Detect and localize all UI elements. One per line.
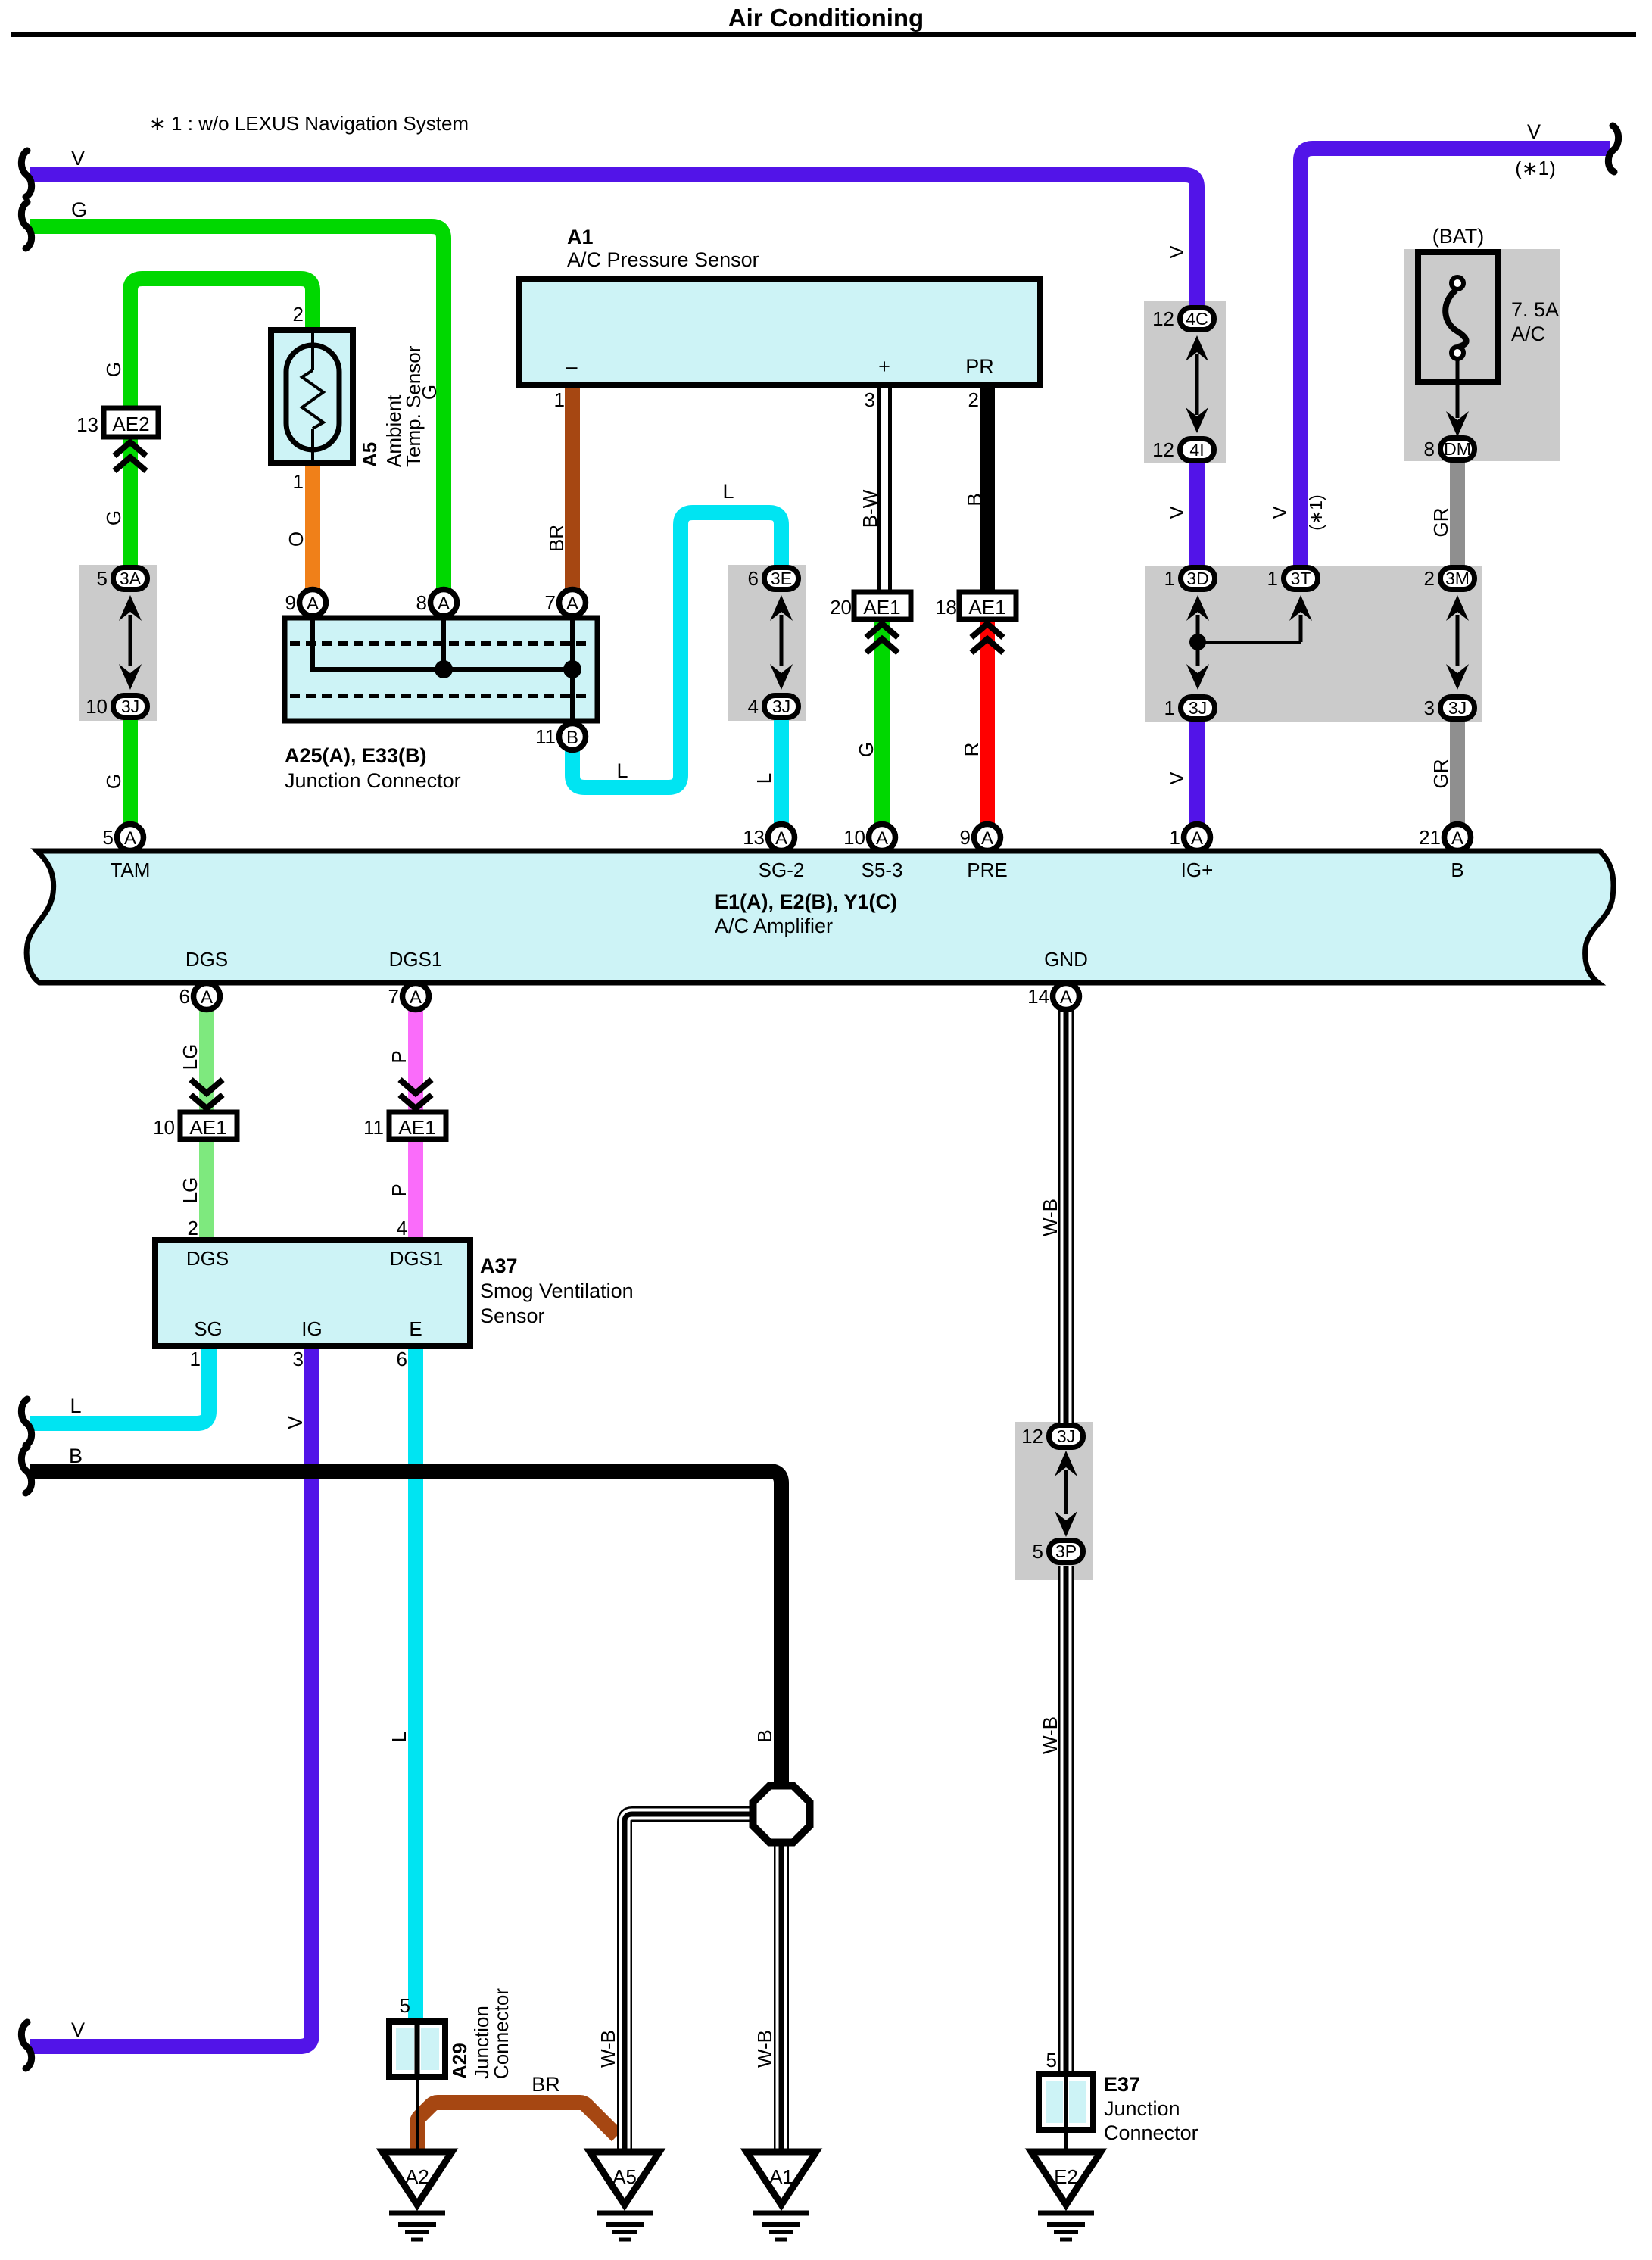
svg-text:A: A	[1451, 828, 1463, 849]
svg-text:LG: LG	[179, 1044, 201, 1071]
svg-text:10: 10	[153, 1116, 175, 1139]
junction connector A25/E33 box	[285, 618, 597, 721]
svg-text:P: P	[388, 1050, 410, 1063]
connector DM	[1441, 438, 1475, 460]
svg-text:13: 13	[76, 413, 98, 436]
svg-text:3J: 3J	[121, 697, 139, 716]
junction connector A29 box	[389, 2022, 445, 2077]
svg-text:E2: E2	[1054, 2165, 1078, 2188]
svg-text:PR: PR	[965, 355, 994, 378]
wire from A29 to A2 ground	[416, 2077, 419, 2152]
arrow into DM	[1446, 411, 1469, 437]
chevron below AE1-20	[866, 624, 898, 637]
svg-text:L: L	[388, 1732, 410, 1742]
svg-text:IG+: IG+	[1181, 859, 1214, 881]
connector AE1-10 box	[180, 1112, 237, 1139]
svg-text:11: 11	[363, 1116, 384, 1139]
svg-text:A/C Amplifier: A/C Amplifier	[715, 915, 833, 937]
connector 3A	[114, 568, 148, 590]
connector 3E	[765, 568, 799, 590]
connector AE1-18 box	[959, 592, 1016, 619]
connector 4C	[1180, 308, 1214, 330]
amplifier pin 14 GND	[1053, 983, 1080, 1010]
connector 3T	[1284, 568, 1318, 590]
svg-text:A: A	[124, 828, 136, 849]
svg-text:A25(A), E33(B): A25(A), E33(B)	[285, 744, 427, 767]
svg-text:1: 1	[1267, 567, 1278, 590]
junction pin 11 B	[559, 724, 586, 750]
wire from fuse to DM	[1456, 359, 1460, 418]
connector AE1-11 box	[389, 1112, 446, 1139]
svg-text:3A: 3A	[120, 569, 142, 588]
svg-text:4C: 4C	[1186, 309, 1208, 329]
svg-text:3J: 3J	[772, 697, 790, 716]
break symbol V bottom left	[21, 2022, 31, 2068]
svg-text:LG: LG	[179, 1177, 201, 1204]
wire V from smog sensor IG pin 3 to left	[30, 1346, 312, 2046]
wire W-B from 3P to E37	[1058, 1566, 1074, 2075]
svg-text:3E: 3E	[771, 569, 792, 588]
connector 3P	[1049, 1541, 1083, 1563]
svg-text:A: A	[307, 594, 319, 614]
svg-text:GND: GND	[1044, 948, 1088, 971]
svg-text:V: V	[71, 147, 85, 170]
svg-text:PRE: PRE	[967, 859, 1007, 881]
amplifier pin 6 DGS	[194, 983, 220, 1010]
junction pin 8 A	[431, 590, 457, 616]
svg-text:Smog Ventilation: Smog Ventilation	[480, 1280, 634, 1302]
svg-text:V: V	[71, 2018, 85, 2041]
connector 3M	[1441, 568, 1475, 590]
wire B from pressure sensor pin 2 to AE1-18	[980, 383, 995, 593]
connector 4I	[1180, 439, 1214, 461]
svg-text:G: G	[102, 362, 125, 377]
break symbol V (*1) right	[1608, 126, 1618, 172]
arrow 3M to 3J	[1446, 595, 1469, 621]
svg-text:E: E	[409, 1317, 422, 1340]
svg-text:3M: 3M	[1445, 569, 1470, 588]
wire B from left to octagon splice	[30, 1471, 781, 1789]
svg-text:3: 3	[293, 1348, 304, 1370]
svg-text:A: A	[981, 828, 993, 849]
chevron below AE1-18	[971, 624, 1003, 637]
wire B-W from pressure sensor pin 3 to AE1-20	[877, 383, 892, 593]
svg-text:B-W: B-W	[859, 489, 881, 528]
svg-text:DM: DM	[1444, 439, 1471, 459]
svg-text:11: 11	[535, 725, 556, 748]
svg-text:Junction: Junction	[1104, 2097, 1180, 2120]
chevron above AE1-11	[400, 1080, 432, 1093]
connector AE1-20 box	[854, 592, 911, 619]
wire L from 3J to amplifier SG-2 pin 13	[774, 719, 789, 825]
svg-text:G: G	[71, 198, 87, 221]
svg-text:7: 7	[388, 985, 399, 1008]
svg-text:P: P	[388, 1183, 410, 1196]
svg-text:2: 2	[968, 388, 979, 411]
svg-text:A: A	[775, 828, 787, 849]
wire R from AE1-18 to amplifier PRE pin 9	[980, 619, 995, 825]
svg-text:1: 1	[293, 470, 304, 493]
ground A1	[747, 2152, 816, 2205]
svg-text:A29: A29	[448, 2043, 471, 2079]
svg-text:8: 8	[1424, 438, 1435, 460]
wire W-B from octagon to A5 ground	[625, 1814, 754, 2152]
amplifier pin 13 SG-2	[768, 825, 795, 851]
svg-text:Connector: Connector	[1104, 2121, 1198, 2144]
fuse block shading	[1404, 249, 1560, 461]
svg-text:B: B	[566, 728, 578, 748]
svg-text:DGS1: DGS1	[390, 1247, 444, 1270]
svg-text:3T: 3T	[1291, 569, 1311, 588]
svg-text:AE1: AE1	[189, 1116, 226, 1139]
ambient temp sensor thermistor symbol	[311, 330, 314, 370]
svg-text:Junction Connector: Junction Connector	[285, 769, 461, 792]
svg-text:BR: BR	[531, 2073, 560, 2096]
svg-text:5: 5	[400, 1994, 410, 2017]
svg-text:Sensor: Sensor	[480, 1305, 545, 1327]
svg-text:BR: BR	[545, 525, 568, 552]
svg-text:3D: 3D	[1186, 569, 1208, 588]
svg-text:–: –	[566, 355, 577, 378]
wire V from 3J to amplifier IG+ pin 1	[1189, 719, 1205, 825]
junction connector internal bus	[313, 618, 572, 669]
svg-text:3: 3	[1424, 697, 1435, 719]
svg-text:TAM: TAM	[111, 859, 151, 881]
junction connector E37 box	[1039, 2074, 1093, 2130]
svg-text:9: 9	[960, 826, 971, 849]
wire G from 3J to amplifier TAM pin 5	[123, 719, 138, 825]
svg-text:R: R	[960, 743, 983, 757]
svg-text:B: B	[963, 493, 986, 506]
svg-text:GR: GR	[1429, 508, 1452, 538]
svg-text:V: V	[1165, 772, 1188, 785]
ambient temp sensor A5 box	[271, 330, 353, 463]
wire from E37 to E2 ground	[1064, 2130, 1068, 2152]
svg-text:3J: 3J	[1448, 698, 1467, 718]
chevron below AE2	[114, 442, 146, 456]
svg-text:7. 5A: 7. 5A	[1511, 298, 1559, 321]
svg-text:SG: SG	[194, 1317, 223, 1340]
arrow 3A to 3J	[119, 595, 142, 621]
fuse 7.5A A/C box	[1418, 252, 1498, 382]
svg-text:(∗1): (∗1)	[1515, 157, 1556, 179]
connector 3D	[1181, 568, 1215, 590]
connector block 3D/3T/3M/3J row	[1145, 566, 1482, 722]
wire L from junction pin 11 to 3E	[572, 513, 781, 787]
svg-text:A/C Pressure Sensor: A/C Pressure Sensor	[567, 248, 759, 271]
A/C amplifier box	[26, 851, 1613, 983]
svg-text:A37: A37	[480, 1255, 518, 1277]
break symbol G bus left	[21, 202, 31, 248]
junction connector internal dashed bus 1	[290, 641, 592, 646]
svg-text:L: L	[722, 480, 734, 503]
svg-text:A: A	[410, 987, 422, 1008]
svg-text:1: 1	[1164, 697, 1175, 719]
wire V from 4I to 3D	[1189, 462, 1205, 566]
wire BR from pressure sensor pin 1 to junction pin 7	[565, 383, 580, 591]
svg-text:2: 2	[1424, 567, 1435, 590]
connector 3J on W-B	[1049, 1426, 1083, 1448]
svg-text:GR: GR	[1429, 759, 1452, 789]
connector block 3J/3P	[1015, 1422, 1093, 1580]
amplifier pin 1 IG+	[1184, 825, 1211, 851]
svg-text:V: V	[1165, 506, 1188, 519]
svg-text:5: 5	[103, 826, 114, 849]
wire W-B from octagon to A1 ground	[774, 1841, 789, 2152]
amplifier pin 7 DGS1	[403, 983, 429, 1010]
junction node at pin 8	[435, 660, 453, 678]
svg-text:(∗1): (∗1)	[1306, 494, 1326, 530]
A/C pressure sensor A1 box	[519, 279, 1040, 385]
arrow 3D junction to 3T and 3J	[1186, 595, 1209, 621]
break symbol V bus left	[21, 151, 31, 197]
svg-text:10: 10	[843, 826, 865, 849]
connector 3J below 3E	[765, 696, 799, 718]
svg-text:21: 21	[1419, 826, 1441, 849]
svg-text:W-B: W-B	[1039, 1716, 1061, 1754]
break symbol L left	[21, 1399, 31, 1445]
svg-text:9: 9	[285, 591, 296, 614]
svg-text:6: 6	[748, 567, 759, 590]
junction pin 7 A	[559, 590, 586, 616]
svg-text:2: 2	[293, 303, 304, 326]
svg-text:6: 6	[397, 1348, 407, 1370]
svg-text:Connector: Connector	[490, 1988, 513, 2079]
svg-text:E1(A), E2(B), Y1(C): E1(A), E2(B), Y1(C)	[715, 890, 897, 913]
svg-text:V: V	[1268, 506, 1291, 519]
svg-text:AE1: AE1	[968, 596, 1005, 619]
wire GR from 3J to amplifier B pin 21	[1450, 719, 1465, 825]
svg-text:B: B	[1451, 859, 1463, 881]
svg-text:13: 13	[743, 826, 765, 849]
svg-text:S5-3: S5-3	[862, 859, 903, 881]
svg-text:∗ 1 : w/o LEXUS Navigation Sys: ∗ 1 : w/o LEXUS Navigation System	[149, 112, 469, 135]
svg-text:20: 20	[830, 596, 852, 619]
svg-text:A/C: A/C	[1511, 323, 1545, 345]
svg-text:3J: 3J	[1189, 698, 1207, 718]
svg-text:1: 1	[190, 1348, 201, 1370]
wire W-B from amplifier GND pin 14 to 3J	[1058, 1010, 1074, 1423]
svg-text:A1: A1	[769, 2165, 793, 2188]
svg-text:DGS1: DGS1	[389, 948, 443, 971]
svg-text:12: 12	[1152, 307, 1174, 330]
svg-text:5: 5	[1033, 1540, 1043, 1563]
svg-text:(BAT): (BAT)	[1432, 225, 1485, 248]
svg-text:L: L	[70, 1395, 81, 1417]
svg-text:B: B	[69, 1445, 83, 1467]
svg-text:V: V	[1527, 120, 1541, 143]
octagon splice joint	[753, 1786, 810, 1843]
chevron above AE1-10	[191, 1080, 223, 1093]
connector 3J below 3M	[1441, 697, 1475, 719]
svg-text:A: A	[438, 594, 450, 614]
wire GR from DM to 3M	[1450, 462, 1465, 566]
amplifier pin 21 B	[1445, 825, 1471, 851]
svg-text:V: V	[284, 1416, 307, 1429]
svg-text:4I: 4I	[1189, 440, 1204, 460]
svg-text:7: 7	[545, 591, 556, 614]
svg-text:8: 8	[416, 591, 427, 614]
wire LG from amplifier DGS pin 6 to smog sensor pin 2	[199, 1009, 214, 1242]
connector AE2-13 box	[104, 408, 158, 437]
svg-text:6: 6	[179, 985, 190, 1008]
arrow 3J to 3P	[1055, 1451, 1077, 1476]
svg-text:G: G	[102, 510, 125, 525]
wire G from AE2 to 3A	[123, 435, 138, 566]
svg-text:AE1: AE1	[398, 1116, 435, 1139]
connector block 4C/4I	[1144, 301, 1226, 463]
amplifier pin 10 S5-3	[869, 825, 896, 851]
amplifier pin 9 PRE	[974, 825, 1001, 851]
connector block 3E/3J	[728, 565, 806, 721]
svg-text:A: A	[566, 594, 578, 614]
svg-text:A: A	[1060, 987, 1072, 1008]
svg-text:3: 3	[865, 388, 875, 411]
svg-text:L: L	[616, 759, 628, 782]
svg-text:18: 18	[935, 596, 957, 619]
wire G from AE1-20 to amplifier S5-3 pin 10	[874, 619, 890, 825]
svg-text:12: 12	[1021, 1425, 1043, 1448]
svg-text:5: 5	[1046, 2049, 1057, 2071]
svg-text:B: B	[753, 1729, 776, 1742]
connector block 3A/3J (instrument panel)	[79, 565, 157, 721]
svg-text:W-B: W-B	[1039, 1199, 1061, 1236]
svg-text:G: G	[102, 774, 125, 789]
svg-text:3J: 3J	[1057, 1426, 1075, 1446]
svg-text:3P: 3P	[1055, 1541, 1077, 1561]
svg-text:A: A	[201, 987, 213, 1008]
svg-text:A: A	[1191, 828, 1203, 849]
svg-text:W-B: W-B	[597, 2030, 619, 2068]
smog ventilation sensor A37 box	[155, 1240, 470, 1346]
ground E2	[1031, 2152, 1101, 2205]
arrow 4C to 4I	[1186, 335, 1208, 361]
wire BR from A2 ground to A5 ground	[417, 2103, 617, 2150]
svg-text:12: 12	[1152, 438, 1174, 461]
svg-text:+: +	[878, 355, 890, 378]
svg-text:AE2: AE2	[112, 413, 149, 435]
break symbol B left	[21, 1447, 31, 1493]
svg-text:E37: E37	[1104, 2073, 1140, 2096]
svg-text:SG-2: SG-2	[759, 859, 805, 881]
svg-text:1: 1	[1164, 567, 1175, 590]
svg-text:Temp. Sensor: Temp. Sensor	[402, 345, 425, 467]
svg-text:1: 1	[554, 388, 565, 411]
svg-text:4: 4	[748, 695, 759, 718]
wire G branch from ambient temp sensor pin 2 to AE2	[130, 279, 313, 410]
svg-text:W-B: W-B	[753, 2030, 776, 2068]
connector 3J below 3A	[114, 696, 148, 718]
wire O from ambient temp sensor pin 1 to junction pin 9	[305, 462, 320, 591]
svg-text:G: G	[855, 742, 877, 757]
junction node at pin 7	[563, 660, 581, 678]
svg-text:A1: A1	[567, 226, 594, 248]
wire V bus from left to 4C	[30, 175, 1197, 306]
ground A2	[382, 2152, 452, 2205]
svg-text:A2: A2	[405, 2165, 429, 2188]
svg-text:Air Conditioning: Air Conditioning	[728, 4, 924, 32]
svg-text:DGS: DGS	[186, 1247, 229, 1270]
connector 3J below 3D	[1181, 697, 1215, 719]
wire L from smog sensor E pin 6 to A29	[408, 1346, 423, 2023]
ground A5	[590, 2152, 659, 2205]
junction pin 9 A	[300, 590, 326, 616]
svg-text:4: 4	[397, 1217, 407, 1239]
junction connector internal dashed bus 2	[290, 694, 592, 698]
title rule	[11, 32, 1636, 37]
svg-text:AE1: AE1	[863, 596, 900, 619]
wire G bus from left to junction connector pin 8	[30, 226, 444, 591]
fuse element symbol	[1451, 277, 1463, 289]
svg-text:10: 10	[86, 695, 108, 718]
svg-text:14: 14	[1027, 985, 1049, 1008]
svg-text:O: O	[285, 531, 307, 547]
wire V (*1) bus from right to 3T	[1301, 148, 1610, 566]
svg-text:5: 5	[97, 567, 108, 590]
svg-text:2: 2	[188, 1217, 198, 1239]
svg-text:L: L	[753, 773, 775, 784]
svg-text:A5: A5	[358, 442, 381, 467]
svg-text:1: 1	[1170, 826, 1180, 849]
wire L from smog sensor SG pin 1 to left	[30, 1346, 209, 1423]
svg-text:V: V	[1165, 245, 1188, 259]
wire P from amplifier DGS1 pin 7 to smog sensor pin 4	[408, 1009, 423, 1242]
svg-text:A5: A5	[612, 2165, 637, 2188]
svg-text:DGS: DGS	[185, 948, 228, 971]
svg-text:A: A	[876, 828, 888, 849]
svg-text:IG: IG	[301, 1317, 322, 1340]
arrow 3E to 3J	[770, 595, 793, 621]
amplifier pin 5 TAM	[117, 825, 144, 851]
